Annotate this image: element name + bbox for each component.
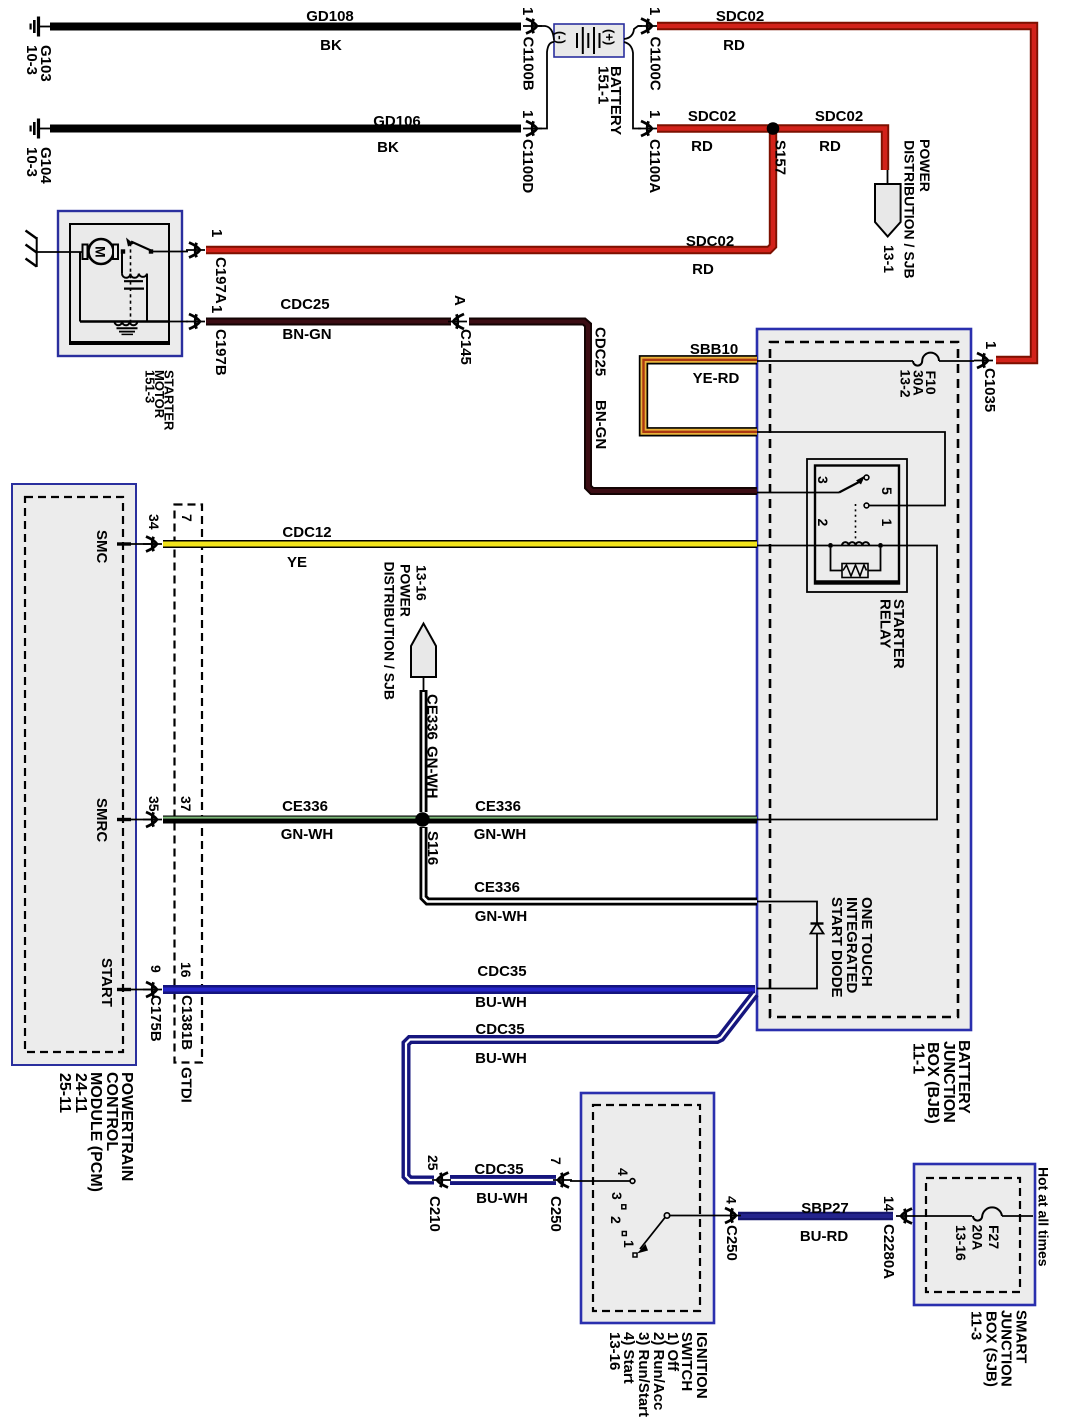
svg-text:YE-RD: YE-RD (693, 370, 740, 387)
svg-text:1: 1 (519, 7, 536, 15)
svg-text:C197A: C197A (212, 257, 229, 304)
svg-text:S116: S116 (424, 831, 441, 865)
svg-text:151-3: 151-3 (142, 370, 157, 403)
svg-text:SMC: SMC (93, 530, 110, 564)
svg-text:1: 1 (519, 110, 536, 118)
svg-text:25-11: 25-11 (56, 1073, 73, 1113)
svg-text:2: 2 (815, 519, 831, 527)
svg-text:4: 4 (615, 1168, 631, 1176)
svg-text:1: 1 (879, 519, 895, 527)
svg-text:C1035: C1035 (981, 368, 998, 412)
svg-text:CE336: CE336 (474, 879, 520, 896)
svg-text:34: 34 (146, 514, 162, 530)
svg-text:1: 1 (621, 1240, 637, 1248)
svg-text:BU-RD: BU-RD (800, 1228, 848, 1245)
svg-text:DISTRIBUTION / SJB: DISTRIBUTION / SJB (902, 140, 918, 278)
svg-text:2: 2 (608, 1216, 624, 1224)
svg-text:BK: BK (320, 37, 342, 54)
svg-text:151-1: 151-1 (595, 66, 612, 104)
svg-text:BU-WH: BU-WH (475, 994, 527, 1011)
svg-text:BU-WH: BU-WH (476, 1190, 528, 1207)
svg-text:C175B: C175B (147, 995, 164, 1042)
svg-text:GN-WH: GN-WH (281, 826, 334, 843)
svg-text:DISTRIBUTION / SJB: DISTRIBUTION / SJB (382, 562, 398, 700)
svg-text:3: 3 (815, 476, 831, 484)
svg-text:Hot at all times: Hot at all times (1036, 1167, 1052, 1267)
svg-text:RD: RD (723, 37, 745, 54)
svg-text:START DIODE: START DIODE (828, 897, 845, 998)
svg-text:S157: S157 (772, 140, 789, 175)
svg-text:SBB10: SBB10 (690, 341, 738, 358)
svg-text:GN-WH: GN-WH (475, 908, 528, 925)
svg-text:CDC25: CDC25 (280, 296, 329, 313)
svg-text:BK: BK (377, 139, 399, 156)
svg-text:C1381B: C1381B (178, 995, 195, 1050)
svg-text:13-1: 13-1 (881, 245, 897, 273)
svg-text:1: 1 (208, 305, 225, 313)
svg-text:C210: C210 (426, 1196, 443, 1232)
svg-text:C1100B: C1100B (520, 37, 537, 91)
svg-text:C2280A: C2280A (880, 1224, 897, 1279)
svg-text:13-2: 13-2 (898, 370, 914, 398)
svg-text:SMRC: SMRC (93, 798, 110, 842)
svg-text:3: 3 (609, 1192, 625, 1200)
svg-text:SDC02: SDC02 (815, 108, 863, 125)
svg-text:BN-GN: BN-GN (592, 400, 609, 449)
svg-text:SDC02: SDC02 (688, 108, 736, 125)
svg-text:24-11: 24-11 (72, 1073, 89, 1113)
svg-text:C1100A: C1100A (646, 139, 663, 193)
svg-text:SDC02: SDC02 (716, 8, 764, 25)
svg-text:CDC35: CDC35 (475, 1021, 524, 1038)
svg-text:1: 1 (982, 341, 999, 349)
svg-text:JUNCTION: JUNCTION (940, 1041, 957, 1123)
svg-text:POWER: POWER (917, 139, 933, 192)
svg-text:14: 14 (881, 1196, 897, 1212)
svg-text:CDC12: CDC12 (282, 524, 331, 541)
svg-text:13-16: 13-16 (606, 1332, 623, 1370)
svg-text:1: 1 (646, 7, 663, 15)
svg-text:M: M (93, 246, 109, 258)
svg-text:10-3: 10-3 (23, 45, 40, 75)
svg-text:11-1: 11-1 (910, 1043, 927, 1074)
svg-text:4: 4 (724, 1196, 740, 1204)
svg-text:SBP27: SBP27 (801, 1200, 849, 1217)
svg-text:RD: RD (692, 261, 714, 278)
svg-text:1: 1 (208, 229, 225, 237)
svg-text:RELAY: RELAY (877, 599, 894, 648)
svg-text:13-16: 13-16 (953, 1225, 969, 1261)
svg-text:CDC35: CDC35 (474, 1161, 523, 1178)
svg-text:A: A (451, 295, 468, 306)
svg-text:CE336: CE336 (282, 798, 328, 815)
svg-text:16: 16 (178, 962, 194, 978)
svg-text:C250: C250 (723, 1225, 740, 1261)
svg-text:YE: YE (287, 554, 307, 571)
svg-text:11-3: 11-3 (968, 1311, 985, 1340)
svg-text:GD108: GD108 (306, 8, 354, 25)
svg-text:C145: C145 (457, 329, 474, 365)
svg-text:BN-GN: BN-GN (282, 326, 331, 343)
svg-text:5: 5 (879, 487, 895, 495)
svg-text:7: 7 (548, 1157, 564, 1165)
svg-text:20A: 20A (970, 1225, 986, 1251)
svg-text:GTDI: GTDI (178, 1067, 195, 1103)
svg-text:CE336: CE336 (475, 798, 521, 815)
svg-text:C1100C: C1100C (647, 37, 664, 91)
svg-text:25: 25 (425, 1155, 441, 1171)
svg-text:GN-WH: GN-WH (474, 826, 527, 843)
svg-text:C1100D: C1100D (519, 139, 536, 193)
svg-text:CONTROL: CONTROL (103, 1072, 120, 1151)
svg-text:F27: F27 (986, 1225, 1002, 1249)
svg-text:9: 9 (148, 965, 164, 973)
svg-text:RD: RD (819, 138, 841, 155)
svg-text:(-): (-) (553, 31, 568, 44)
svg-text:C250: C250 (547, 1196, 564, 1232)
svg-text:13-16: 13-16 (414, 565, 430, 601)
svg-text:GD106: GD106 (373, 113, 421, 130)
svg-text:CE336: CE336 (424, 694, 441, 740)
svg-text:SDC02: SDC02 (686, 233, 734, 250)
svg-text:37: 37 (178, 796, 194, 812)
svg-text:CDC35: CDC35 (477, 963, 526, 980)
svg-text:10-3: 10-3 (23, 147, 40, 177)
svg-text:(+): (+) (602, 29, 617, 45)
svg-text:1: 1 (646, 110, 663, 118)
svg-text:CDC25: CDC25 (592, 327, 609, 376)
svg-text:GN-WH: GN-WH (424, 746, 441, 799)
svg-text:RD: RD (691, 138, 713, 155)
svg-text:35: 35 (146, 796, 162, 812)
svg-text:C197B: C197B (212, 329, 229, 376)
svg-text:7: 7 (179, 514, 195, 522)
svg-text:BU-WH: BU-WH (475, 1050, 527, 1067)
svg-text:POWER: POWER (398, 564, 414, 617)
svg-text:START: START (98, 958, 115, 1007)
